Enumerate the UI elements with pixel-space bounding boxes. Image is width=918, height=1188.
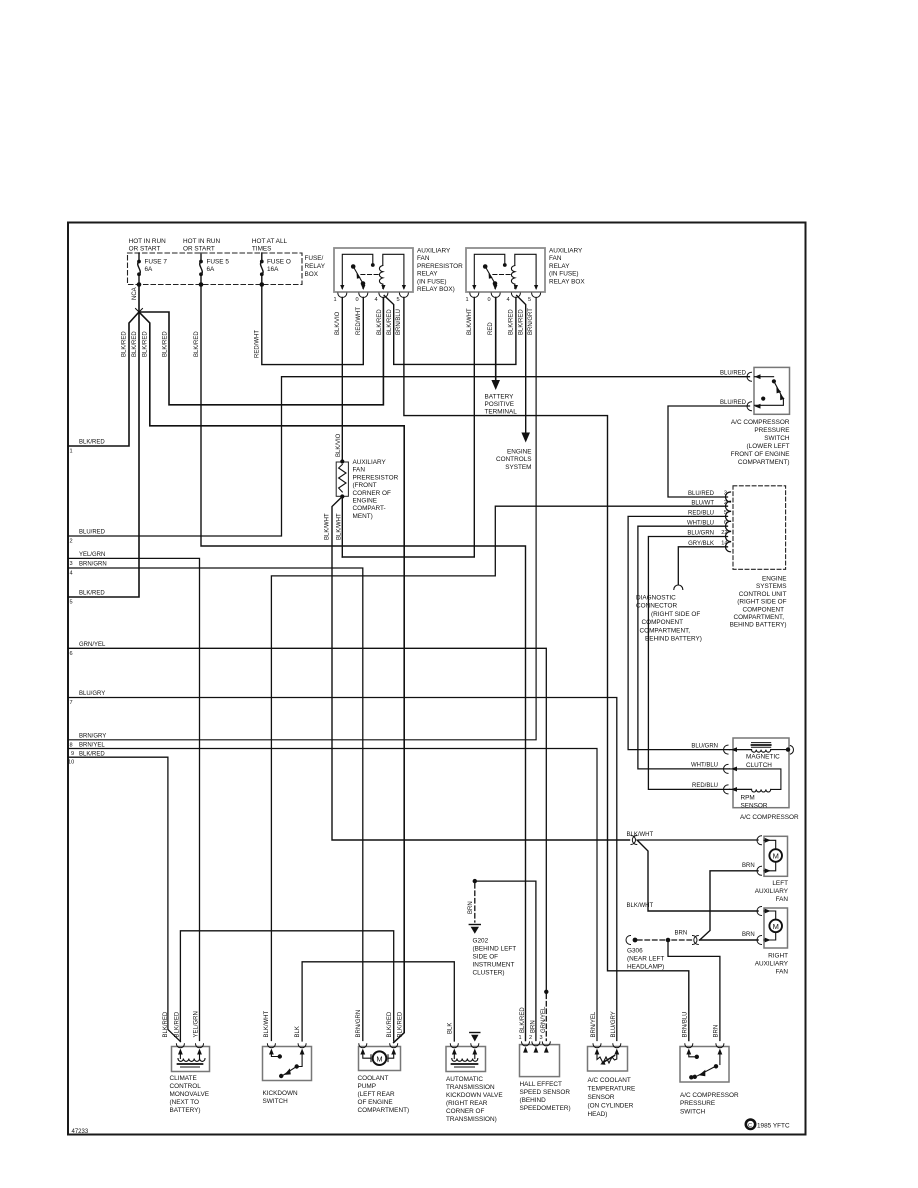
svg-text:BLK/WHT: BLK/WHT (627, 832, 654, 838)
svg-text:FRONT OF ENGINE: FRONT OF ENGINE (731, 451, 790, 458)
svg-text:HALL EFFECT: HALL EFFECT (520, 1081, 562, 1088)
svg-text:BLK/RED: BLK/RED (520, 1007, 526, 1033)
svg-text:6: 6 (724, 520, 727, 526)
svg-text:8: 8 (70, 742, 73, 748)
svg-text:1985 YFTC: 1985 YFTC (757, 1122, 790, 1129)
svg-text:BLK/WHT: BLK/WHT (337, 513, 343, 540)
svg-text:CONTROLS: CONTROLS (496, 456, 532, 463)
fuse F0 hot label (252, 238, 288, 253)
svg-text:BLK/RED: BLK/RED (519, 309, 525, 335)
diagnostic connector symbol (674, 585, 683, 590)
dashed GRN/YEL segment to hall pin3 (544, 990, 548, 994)
svg-text:SPEEDOMETER): SPEEDOMETER) (520, 1105, 571, 1112)
svg-text:BLK/VIO: BLK/VIO (336, 433, 342, 457)
svg-text:3: 3 (724, 491, 727, 497)
svg-text:BLK/RED: BLK/RED (174, 1011, 180, 1037)
wire relay1 pin1 BLK/VIO to preresistor (341, 298, 343, 462)
wire ECU pin3 BLU/RED to pressure switch bottom pin (668, 406, 750, 497)
svg-text:BLU/GRY: BLU/GRY (611, 1011, 617, 1037)
fuse 5 6A (200, 253, 203, 285)
svg-text:BLK/RED: BLK/RED (132, 331, 138, 357)
svg-text:M: M (773, 852, 779, 861)
svg-text:(RIGHT REAR: (RIGHT REAR (446, 1100, 488, 1107)
svg-text:FUSE/: FUSE/ (305, 255, 324, 262)
svg-text:GRY/BLK: GRY/BLK (688, 541, 714, 547)
wire junction straight down to tag5 (BLK/RED) (69, 312, 140, 597)
wire ECU pin14 GRY/BLK to diagnostic connector (678, 547, 727, 585)
svg-text:BRN/GRN: BRN/GRN (79, 562, 107, 568)
svg-text:BLU/GRN: BLU/GRN (687, 531, 714, 537)
svg-text:COMPARTMENT,: COMPARTMENT, (640, 627, 691, 634)
svg-text:OR START: OR START (183, 246, 215, 253)
svg-text:RELAY: RELAY (305, 263, 326, 270)
svg-text:TIMES: TIMES (252, 246, 272, 253)
wire ECU pin2 BLU/WHT to kickdown switch (271, 506, 727, 1040)
wire relay2 pin1 BLK/WHT to preresistor bottom (342, 298, 474, 558)
svg-text:WHT/BLU: WHT/BLU (691, 763, 718, 769)
svg-text:BLK/RED: BLK/RED (163, 1011, 169, 1037)
svg-text:6A: 6A (145, 266, 154, 273)
svg-text:BLK/RED: BLK/RED (163, 331, 169, 357)
svg-text:7: 7 (70, 700, 73, 706)
wire fuse O RED/WHT to relay1 pin 0 (262, 285, 364, 365)
svg-text:CLIMATE: CLIMATE (170, 1075, 197, 1082)
svg-text:BLK/RED: BLK/RED (143, 331, 149, 357)
wire relay2 pin5 BRN/GRY to tag8 (69, 298, 537, 740)
svg-text:COMPONENT: COMPONENT (742, 606, 784, 613)
switch S2 kickdown switch (263, 1044, 312, 1105)
solenoid L1 climate control monovalve (170, 1044, 210, 1114)
svg-text:FAN: FAN (417, 255, 430, 262)
svg-text:KICKDOWN VALVE: KICKDOWN VALVE (446, 1092, 503, 1099)
svg-text:AUTOMATIC: AUTOMATIC (446, 1076, 483, 1083)
svg-text:DIAGNOSTIC: DIAGNOSTIC (636, 595, 676, 602)
svg-text:MONOVALVE: MONOVALVE (170, 1091, 210, 1098)
svg-text:BLK/RED: BLK/RED (122, 331, 128, 357)
svg-text:BRN: BRN (530, 1020, 536, 1033)
svg-text:BRN: BRN (468, 901, 474, 914)
svg-text:9: 9 (71, 751, 74, 757)
tag 9 BRN/YEL wire to temperature sensor (69, 749, 598, 1041)
svg-text:FUSE 5: FUSE 5 (207, 259, 230, 266)
svg-text:MENT): MENT) (353, 513, 373, 520)
svg-text:RED/WHT: RED/WHT (255, 330, 261, 358)
junction tick (136, 309, 143, 313)
relay K1 auxiliary fan preresistor relay (334, 248, 464, 304)
svg-text:(ON CYLINDER: (ON CYLINDER (588, 1103, 634, 1110)
svg-text:NCA: NCA (132, 287, 138, 300)
wire BRN splice to bottom pressure switch (668, 940, 720, 1041)
svg-text:YEL/GRN: YEL/GRN (193, 1011, 199, 1037)
svg-text:BLU/WT: BLU/WT (691, 501, 714, 507)
relay K2 auxiliary fan relay (466, 248, 586, 304)
connector pair on BRN (693, 936, 698, 945)
svg-text:A/C COMPRESSOR: A/C COMPRESSOR (680, 1092, 739, 1099)
wire branch to right fan (637, 840, 758, 911)
svg-text:(NEAR LEFT: (NEAR LEFT (627, 956, 664, 963)
svg-text:BLK/RED: BLK/RED (194, 331, 200, 357)
wire relay1 pin5 BRN/BLU to A/C compressor pressure switch (404, 298, 689, 1041)
svg-text:COOLANT: COOLANT (358, 1075, 389, 1082)
svg-text:BRN: BRN (713, 1025, 719, 1038)
fuse F5 hot label (183, 238, 221, 253)
svg-text:RPM: RPM (741, 795, 755, 802)
svg-text:FAN: FAN (353, 467, 366, 474)
svg-text:RED/WHT: RED/WHT (356, 307, 362, 335)
svg-text:KICKDOWN: KICKDOWN (263, 1090, 299, 1097)
svg-text:SIDE OF: SIDE OF (473, 954, 499, 961)
svg-text:1: 1 (519, 1035, 522, 1041)
connector pair on fan feed (631, 836, 636, 845)
svg-text:6A: 6A (207, 266, 216, 273)
svg-text:OF ENGINE: OF ENGINE (358, 1099, 393, 1106)
svg-text:COMPONENT: COMPONENT (642, 619, 684, 626)
wire ECU pin22 BLU/GRN to compressor RED/BLU (648, 537, 729, 790)
svg-text:(BEHIND: (BEHIND (520, 1097, 547, 1104)
svg-text:TEMPERATURE: TEMPERATURE (588, 1086, 636, 1093)
svg-text:M: M (376, 1054, 382, 1063)
wire fuse 5 BLK/RED to hall sensor pin1 (201, 285, 526, 1041)
wire preresistor left branch BLK/WHT to auxiliary fans (332, 497, 630, 841)
svg-text:6: 6 (70, 651, 73, 657)
svg-text:BRN/GRY: BRN/GRY (79, 733, 106, 739)
svg-text:HEAD): HEAD) (588, 1111, 608, 1118)
solenoid L2 automatic transmission kickdown valve (446, 1033, 503, 1124)
fuse O 16A (261, 253, 264, 285)
svg-text:GRN/YEL: GRN/YEL (79, 642, 106, 648)
svg-text:BLK/VIO: BLK/VIO (335, 311, 341, 335)
wire fuse7 down to junction (138, 285, 140, 313)
svg-text:BEHIND BATTERY): BEHIND BATTERY) (730, 622, 787, 629)
svg-text:BOX: BOX (305, 271, 319, 278)
wire junction east branch to relay1 pin4 (BLK/RED) (139, 298, 383, 405)
switch S3 A/C compressor pressure switch (bottom) (680, 1044, 739, 1116)
svg-text:(IN FUSE): (IN FUSE) (417, 278, 446, 285)
wire ECU pin5 RED/BLU to compressor clutch BLU/GRN (628, 516, 729, 749)
svg-text:BLK/RED: BLK/RED (387, 309, 393, 335)
svg-text:BLU/RED: BLU/RED (79, 530, 106, 536)
svg-text:10: 10 (68, 760, 74, 766)
svg-text:SENSOR: SENSOR (741, 803, 768, 810)
svg-text:CORNER OF: CORNER OF (446, 1108, 484, 1115)
svg-text:2: 2 (529, 1035, 532, 1041)
svg-text:RED: RED (488, 322, 494, 335)
svg-text:COMPART-: COMPART- (353, 505, 386, 512)
svg-text:16A: 16A (267, 266, 279, 273)
svg-text:BLU/GRN: BLU/GRN (691, 743, 718, 749)
wire junction diagonal to relay1 pin4 feed (BLK/RED) (139, 312, 404, 1043)
svg-text:OR START: OR START (129, 246, 161, 253)
fuse/relay box (dashed) (128, 253, 303, 285)
motor M1 left auxiliary fan (755, 836, 789, 903)
svg-text:BLU/GRY: BLU/GRY (79, 691, 105, 697)
rpm sensor coil (752, 789, 771, 792)
svg-text:CORNER OF: CORNER OF (353, 490, 391, 497)
svg-text:SWITCH: SWITCH (764, 435, 790, 442)
svg-text:BLK: BLK (447, 1023, 453, 1034)
svg-text:BLU/RED: BLU/RED (688, 491, 715, 497)
svg-text:2: 2 (724, 500, 727, 506)
svg-text:G202: G202 (473, 938, 489, 945)
svg-text:ENGINE: ENGINE (762, 576, 787, 583)
tag 7 BLU/GRY wire to temperature sensor (69, 698, 617, 1041)
copyright logo 1985 YFTC (746, 1120, 755, 1129)
svg-text:TRANSMISSION: TRANSMISSION (446, 1084, 495, 1091)
svg-text:FUSE O: FUSE O (267, 259, 291, 266)
svg-text:(RIGHT SIDE OF: (RIGHT SIDE OF (651, 611, 700, 618)
svg-text:HOT IN RUN: HOT IN RUN (129, 238, 167, 245)
svg-text:5: 5 (528, 297, 531, 303)
svg-text:A/C COOLANT: A/C COOLANT (588, 1077, 631, 1084)
svg-text:RED/BLU: RED/BLU (692, 783, 718, 789)
svg-text:BLK/WHT: BLK/WHT (325, 513, 331, 540)
svg-text:COMPARTMENT,: COMPARTMENT, (733, 614, 784, 621)
svg-text:BLK/RED: BLK/RED (79, 591, 105, 597)
svg-text:0: 0 (356, 297, 359, 303)
svg-text:BLU/RED: BLU/RED (720, 400, 747, 406)
tag 2 BLU/RED wire to A/C pressure switch top pin (69, 377, 750, 536)
ground G202 symbol (469, 924, 480, 926)
svg-text:(FRONT: (FRONT (353, 482, 377, 489)
svg-text:22: 22 (721, 530, 727, 536)
svg-text:A/C COMPRESSOR: A/C COMPRESSOR (731, 419, 790, 426)
svg-text:BATTERY): BATTERY) (170, 1107, 201, 1114)
svg-text:BLK/WHT: BLK/WHT (264, 1010, 270, 1037)
svg-text:PRERESISTOR: PRERESISTOR (353, 474, 399, 481)
svg-text:TRANSMISSION): TRANSMISSION) (446, 1116, 497, 1123)
A/C compressor assembly (691, 738, 799, 821)
svg-text:BRN/BLU: BRN/BLU (682, 1011, 688, 1037)
svg-text:BLK/RED: BLK/RED (377, 309, 383, 335)
svg-text:BLU/RED: BLU/RED (720, 371, 747, 377)
svg-text:4: 4 (507, 297, 510, 303)
dashed BRN to G306 (671, 939, 692, 941)
tag 10 BLK/RED wire to climate control monovalve (69, 757, 181, 1041)
svg-text:C: C (748, 1123, 752, 1129)
svg-text:(NEXT TO: (NEXT TO (170, 1099, 200, 1106)
svg-text:14: 14 (721, 541, 727, 547)
svg-text:PRESSURE: PRESSURE (680, 1100, 715, 1107)
tag 3 YEL/GRN wire to climate control monovalve (69, 558, 200, 1040)
svg-text:1: 1 (334, 297, 337, 303)
svg-text:SWITCH: SWITCH (263, 1098, 289, 1105)
svg-text:1: 1 (466, 297, 469, 303)
svg-text:BLK/RED: BLK/RED (398, 1011, 404, 1037)
svg-text:GRN/YEL: GRN/YEL (541, 1006, 547, 1033)
svg-text:2: 2 (70, 539, 73, 545)
svg-text:TERMINAL: TERMINAL (485, 408, 518, 415)
svg-text:4: 4 (375, 297, 378, 303)
svg-text:ENGINE: ENGINE (353, 498, 378, 505)
svg-text:FAN: FAN (549, 255, 562, 262)
fuse 7 6A (138, 253, 141, 285)
wire relay2 pin0 RED to battery positive terminal (495, 298, 497, 382)
tag 4 BRN/GRN wire to coolant pump (69, 568, 363, 1041)
wire BLK/RED branch to monovalve and coolant pump (271, 575, 404, 577)
svg-text:BLK/RED: BLK/RED (509, 309, 515, 335)
svg-text:ENGINE: ENGINE (507, 449, 532, 456)
svg-text:HOT AT ALL: HOT AT ALL (252, 238, 288, 245)
svg-text:SPEED SENSOR: SPEED SENSOR (520, 1089, 571, 1096)
svg-text:FUSE 7: FUSE 7 (145, 259, 168, 266)
svg-text:BRN: BRN (742, 863, 755, 869)
ground G202 link from hall sensor pin2 (475, 881, 536, 1040)
motor M3 coolant pump (358, 1044, 410, 1114)
tag 6 GRN/YEL wire to hall sensor pin3 (69, 648, 547, 992)
fuse F7 hot label (129, 238, 167, 253)
svg-text:INSTRUMENT: INSTRUMENT (473, 962, 515, 969)
svg-text:BRN/BLU: BRN/BLU (396, 309, 402, 335)
svg-text:CLUTCH: CLUTCH (746, 762, 772, 769)
wire relay1 pin4 diagonal BLK/RED to relay2 pin4 (384, 296, 516, 365)
svg-text:AUXILIARY: AUXILIARY (755, 961, 789, 968)
ground symbol on valve pin2 (470, 1032, 480, 1034)
wire ECU pin6 WHT/BLU to compressor WHT/BLU (638, 526, 730, 769)
svg-text:FAN: FAN (776, 896, 789, 903)
svg-text:HEADLAMP): HEADLAMP) (627, 964, 664, 971)
svg-text:0: 0 (488, 297, 491, 303)
svg-text:5: 5 (724, 510, 727, 516)
svg-text:SYSTEMS: SYSTEMS (756, 583, 787, 590)
hall effect speed sensor (519, 1035, 571, 1112)
svg-text:AUXILIARY: AUXILIARY (417, 248, 451, 255)
resistor R1 auxiliary fan preresistor (336, 459, 398, 520)
svg-text:CLUSTER): CLUSTER) (473, 970, 505, 977)
svg-text:AUXILIARY: AUXILIARY (755, 888, 789, 895)
wire left fan BRN down to splice (700, 871, 758, 940)
svg-text:4: 4 (70, 571, 73, 577)
svg-text:SWITCH: SWITCH (680, 1109, 706, 1116)
svg-text:FAN: FAN (776, 969, 789, 976)
svg-text:PRESSURE: PRESSURE (754, 427, 789, 434)
svg-text:HOT IN RUN: HOT IN RUN (183, 238, 221, 245)
svg-text:(IN FUSE): (IN FUSE) (549, 271, 578, 278)
svg-text:YEL/GRN: YEL/GRN (79, 552, 105, 558)
svg-text:RELAY: RELAY (417, 271, 438, 278)
magnetic clutch core lines (752, 743, 771, 748)
svg-text:COMPARTMENT): COMPARTMENT) (738, 459, 790, 466)
wire kickdown switch BLK to kickdown valve (302, 962, 454, 1041)
switch S1 A/C compressor pressure switch (top right) (720, 367, 790, 466)
svg-text:RIGHT: RIGHT (768, 953, 788, 960)
svg-text:BLK/WHT: BLK/WHT (467, 308, 473, 335)
svg-text:BLK: BLK (295, 1026, 301, 1037)
svg-text:(BEHIND LEFT: (BEHIND LEFT (473, 946, 517, 953)
engine systems control unit U1 (dashed box) (733, 486, 786, 570)
node junction of fuse 7 (138, 311, 140, 313)
svg-text:BLK/WHT: BLK/WHT (627, 903, 654, 909)
svg-text:(LEFT REAR: (LEFT REAR (358, 1091, 396, 1098)
svg-text:BRN/GRT: BRN/GRT (528, 308, 534, 335)
svg-text:M: M (773, 922, 779, 931)
svg-text:(RIGHT SIDE OF: (RIGHT SIDE OF (737, 599, 786, 606)
svg-text:CONNECTOR: CONNECTOR (636, 603, 677, 610)
svg-text:RELAY: RELAY (549, 263, 570, 270)
svg-text:RELAY BOX: RELAY BOX (549, 278, 585, 285)
svg-text:PRERESISTOR: PRERESISTOR (417, 263, 463, 270)
svg-text:PUMP: PUMP (358, 1083, 376, 1090)
svg-text:BATTERY: BATTERY (485, 393, 515, 400)
compressor pin arcs (724, 745, 728, 794)
svg-text:BRN: BRN (742, 932, 755, 938)
border frame (68, 223, 806, 1135)
wire junction to tag1 (BLK/RED) (69, 312, 140, 446)
svg-text:MAGNETIC: MAGNETIC (746, 753, 780, 760)
svg-text:5: 5 (70, 600, 73, 606)
svg-text:CONTROL UNIT: CONTROL UNIT (739, 591, 787, 598)
magnetic clutch coil (752, 750, 771, 753)
svg-text:47233: 47233 (72, 1129, 89, 1135)
svg-text:BRN/GRN: BRN/GRN (356, 1010, 362, 1038)
svg-text:G306: G306 (627, 948, 643, 955)
svg-text:POSITIVE: POSITIVE (485, 401, 514, 408)
motor M2 right auxiliary fan (755, 907, 789, 976)
svg-text:LEFT: LEFT (772, 880, 788, 887)
svg-text:WHT/BLU: WHT/BLU (687, 520, 714, 526)
svg-text:1: 1 (70, 449, 73, 455)
svg-text:RELAY BOX): RELAY BOX) (417, 286, 455, 293)
svg-text:BRN/YEL: BRN/YEL (591, 1011, 597, 1037)
svg-text:SENSOR: SENSOR (588, 1094, 615, 1101)
svg-text:AUXILIARY: AUXILIARY (353, 459, 387, 466)
wire relay2 pin4 diagonal BLK/RED to engine controls system (517, 296, 526, 434)
svg-text:COMPARTMENT): COMPARTMENT) (358, 1107, 410, 1114)
svg-text:BRN: BRN (675, 931, 688, 937)
svg-text:AUXILIARY: AUXILIARY (549, 248, 583, 255)
svg-text:BLK/RED: BLK/RED (79, 751, 105, 757)
svg-text:3: 3 (540, 1035, 543, 1041)
svg-text:BLK/RED: BLK/RED (79, 440, 105, 446)
svg-text:BEHIND BATTERY): BEHIND BATTERY) (645, 636, 702, 643)
svg-text:(LOWER LEFT: (LOWER LEFT (747, 443, 790, 450)
svg-text:SYSTEM: SYSTEM (505, 464, 531, 471)
wire preresistor right branch BLK/WHT down (341, 497, 343, 558)
node G306 (627, 948, 664, 971)
svg-text:BRN/YEL: BRN/YEL (79, 743, 105, 749)
svg-text:CONTROL: CONTROL (170, 1083, 202, 1090)
svg-text:RED/BLU: RED/BLU (688, 511, 714, 517)
svg-text:A/C COMPRESSOR: A/C COMPRESSOR (740, 814, 799, 821)
svg-text:3: 3 (70, 561, 73, 567)
wire right fan BRN to connector (700, 939, 759, 941)
svg-text:BLK/RED: BLK/RED (387, 1011, 393, 1037)
thermistor RT1 A/C coolant temperature sensor (588, 1044, 636, 1118)
svg-text:5: 5 (397, 297, 400, 303)
wire to left fan (639, 839, 759, 841)
